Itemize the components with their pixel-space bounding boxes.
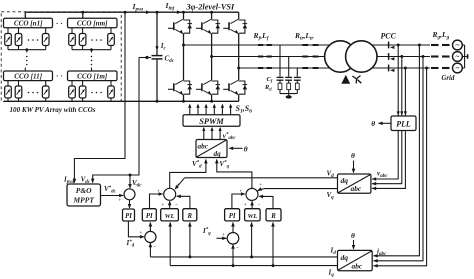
converter block CCO1 CCO [n1] [4, 18, 53, 28]
summing junction DC voltage [124, 189, 135, 200]
svg-text:R: R [187, 213, 193, 220]
summing junction q-axis [246, 188, 258, 200]
wire: CCO[n1] stub to bus [24, 12, 26, 18]
wire: bottom rail of top-row group 2 [72, 49, 111, 51]
PV module string 2-3 (bottom row) [108, 86, 115, 98]
wire: I_q feedback bus [170, 265, 337, 267]
wire: v_abc sense phase a [372, 45, 398, 179]
wire: I_d to R_d block [189, 223, 191, 257]
junction v_abc tap phase c [404, 67, 407, 70]
svg-text:abc: abc [198, 142, 209, 150]
junction V_dc branch [129, 174, 132, 177]
junction i_abc tap phase c [425, 67, 428, 70]
controller block R (q-axis) [266, 209, 281, 221]
wire: V_q feedforward [264, 188, 338, 190]
controller block PI (q-axis) [225, 209, 240, 221]
svg-text:SPWM: SPWM [199, 117, 224, 126]
svg-text:~: ~ [455, 52, 459, 61]
series impedance R_f,L_f dashes phase b [258, 56, 263, 58]
current arrow I_pva [146, 10, 151, 14]
svg-text:abc: abc [352, 261, 363, 270]
series impedance R_tr,L_tr dashes phase c [302, 67, 308, 69]
wire: theta output of PLL [379, 122, 392, 124]
wire: DC-link upper [156, 12, 158, 55]
svg-text:WL: WL [165, 213, 175, 220]
converter block CCO2 CCO [nm] [68, 18, 118, 28]
junction q error tap on I_q bus [232, 264, 235, 267]
PV module string 2-1 (top row) [69, 34, 76, 46]
svg-text:θ: θ [351, 231, 355, 240]
junction DC-link top [156, 11, 159, 14]
svg-text:−: − [258, 203, 261, 208]
wire: PI_q output to q summer [232, 194, 245, 209]
junction WL_q tap on I_d bus [250, 255, 253, 258]
IGBT Q3 (top leg 3) [230, 19, 238, 24]
ellipsis dots between PV modules [28, 92, 30, 94]
junction R_q tap on I_q bus [272, 264, 275, 267]
wire: DC-link lower [156, 59, 158, 101]
wire: I_d to WL_q block [251, 223, 253, 257]
wire: v_abc sense phase b [372, 57, 402, 184]
svg-text:R: R [270, 213, 276, 220]
controller block WL (q-axis) [245, 209, 261, 221]
wire: V*_q from q-axis summer to abc/dq [217, 160, 252, 189]
PV module string 1-3 (top row) [42, 34, 49, 46]
PV module string 2-3 (top row) [108, 34, 115, 46]
junction DC-link bottom [156, 100, 159, 103]
IGBT Q6 (bottom leg 3) [230, 80, 238, 85]
svg-text:+: + [162, 203, 165, 208]
PV module string 2-2 (top row) [79, 34, 86, 46]
junction leg 1 on DC- bus [182, 100, 185, 103]
grid source G2 [453, 52, 463, 62]
junction: I_pva tap [124, 11, 127, 14]
wire: theta into current transform [353, 240, 355, 249]
wire: WL_d output to d summer [169, 201, 171, 208]
svg-text:dq: dq [341, 176, 349, 185]
wire: I_q to q error summer [232, 245, 234, 266]
svg-text:MPPT: MPPT [72, 196, 94, 205]
svg-text:abc: abc [351, 184, 362, 193]
series impedance R_f,L_f dashes phase c [258, 67, 263, 69]
converter block CCO3 CCO [11] [4, 71, 53, 81]
SPWM block [183, 115, 240, 126]
inverter leg 2 wires [211, 12, 213, 19]
grid source G3 [453, 63, 463, 73]
junction i_abc tap phase b [422, 55, 425, 58]
wire: d error to PI_d [149, 223, 151, 232]
grid impedance dashes phase b [431, 55, 439, 57]
controller block PI (DC voltage) [123, 209, 135, 221]
P&O MPPT block [67, 184, 101, 206]
IGBT Q1 (top leg 1) [175, 19, 183, 24]
PV array dashed boundary [1, 12, 121, 102]
wire: I_q to R_q block [272, 223, 274, 266]
controller block WL (d-axis) [161, 209, 179, 221]
summing junction q-axis current error [227, 233, 239, 245]
PV module string 1-2 (top row) [15, 34, 22, 46]
shunt branch C_f/R_d phase a [279, 45, 281, 77]
grid source G1 [453, 40, 463, 50]
transformer T1 primary winding [325, 41, 356, 72]
wire: V_d feedforward [185, 177, 338, 179]
PV module string 1-1 (bottom row) [5, 86, 12, 98]
svg-text:PCC: PCC [381, 31, 397, 40]
transform block dq/abc (current) [338, 250, 373, 270]
arrows v*_abc into SPWM [203, 128, 205, 139]
svg-text:−: − [154, 245, 157, 250]
junction phase c midpoint [237, 67, 240, 70]
wire: R_d block output to d summer [177, 196, 190, 208]
svg-text:+: + [240, 190, 243, 195]
junction v_abc tap phase a [397, 44, 400, 47]
svg-text:~: ~ [455, 40, 459, 49]
wire: DC negative bus [4, 100, 239, 102]
wire: I_pva measurement to MPPT [74, 12, 125, 182]
junction + continuation dots group 1 [25, 48, 28, 51]
wire: bottom rail of top-row group 1 [8, 49, 46, 51]
svg-text:PI: PI [125, 213, 132, 220]
controller block R (d-axis) [183, 209, 197, 221]
PLL block U_PLL [391, 116, 416, 131]
wire: V_dc to summer [129, 175, 131, 188]
grid impedance dashes phase a [431, 44, 439, 46]
svg-text:dq: dq [214, 150, 222, 158]
inverter leg 3 wires [238, 12, 240, 19]
svg-text:+: + [119, 199, 122, 204]
junction + continuation dots group 2 [90, 48, 93, 51]
svg-text:θ: θ [371, 119, 375, 128]
wire: CCO[nm] stub to bus [82, 12, 84, 18]
shunt branch C_f/R_d phase c [296, 68, 298, 77]
capacitor C_dc [152, 55, 163, 57]
svg-text:CCO [nm]: CCO [nm] [77, 20, 108, 28]
inverter leg 1 wires [183, 12, 185, 19]
svg-text:CCO [11]: CCO [11] [14, 73, 42, 81]
wire: I*_q reference stub [217, 237, 227, 239]
grid neutral tick [465, 56, 469, 58]
wire: grid neutral bus [464, 45, 466, 68]
svg-text:100 KW PV Array with CCOs: 100 KW PV Array with CCOs [10, 106, 96, 114]
transform block abc/dq (modulation) [196, 140, 227, 158]
junction leg 1 on DC+ bus [182, 11, 185, 14]
wire: V*_d from d-axis summer to abc/dq [170, 160, 206, 188]
arrow into PLL [397, 111, 400, 115]
wire: PI_d output to d summer [150, 194, 163, 209]
shunt branch C_f/R_d phase b [288, 57, 290, 77]
wire: I_q to WL_d block [169, 223, 171, 266]
wire: DC positive bus [25, 11, 238, 13]
grid impedance dashes phase c [431, 67, 439, 69]
arrow into PLL [400, 111, 403, 115]
ellipsis dots between PV modules [91, 39, 93, 41]
wire: i_abc sense phase b [374, 57, 424, 261]
wire: WL_q output to q summer [251, 201, 253, 208]
wire: I*_d from PI to d error summer [128, 221, 144, 237]
svg-text:CCO [1m]: CCO [1m] [77, 73, 108, 81]
wire: phase b line [212, 56, 430, 58]
summing junction d-axis current error [145, 231, 156, 242]
wire: i_abc sense phase c [374, 68, 427, 266]
ellipsis dots between PV modules [91, 92, 93, 94]
svg-text:+: + [222, 233, 225, 238]
svg-text:· ·: · · [56, 72, 63, 81]
sensor tick phase b at PCC [388, 53, 390, 60]
wire: phase c line [239, 67, 430, 69]
svg-text:−: − [175, 203, 178, 208]
svg-text:P&O: P&O [76, 186, 92, 195]
svg-text:Grid: Grid [442, 75, 455, 82]
svg-text:−: − [236, 246, 239, 251]
svg-text:dq: dq [341, 253, 349, 262]
svg-text:· ·: · · [56, 19, 63, 28]
series impedance R_tr,L_tr dashes phase b [302, 56, 308, 58]
wire: i_abc sense phase a [374, 45, 420, 256]
wire: voltage error to PI [129, 200, 131, 208]
summing junction d-axis [164, 188, 176, 200]
IGBT Q4 (bottom leg 1) [175, 80, 183, 85]
svg-text:PI: PI [229, 213, 236, 220]
svg-text:+: + [244, 203, 247, 208]
wire: theta into abc/dq [230, 147, 243, 149]
svg-text:θ: θ [351, 151, 355, 160]
svg-text:PI: PI [146, 213, 153, 220]
wire: I_d feedback bus [150, 256, 337, 258]
sensor tick phase a at PCC [388, 42, 390, 49]
junction leg 2 on DC- bus [210, 100, 213, 103]
ground node of shunt filter [286, 95, 292, 98]
wire: theta into voltage transform [353, 161, 355, 173]
controller block PI (d-axis) [142, 209, 156, 221]
junction R_d tap on I_d bus [188, 255, 191, 258]
wire: phase a line [184, 44, 431, 46]
svg-text:~: ~ [455, 63, 459, 72]
wire: V_dc sense tap [139, 57, 151, 59]
svg-text:−: − [135, 184, 138, 189]
label wye symbol (secondary winding connection) [352, 76, 356, 79]
PV module string 2-2 (bottom row) [79, 86, 86, 98]
junction phase b midpoint [210, 55, 213, 58]
sensor tick phase c at PCC [388, 65, 390, 72]
transform block dq/abc (voltage) [338, 174, 371, 193]
junction on DC+ bus at CCO[nm] [81, 11, 84, 14]
svg-text:WL: WL [247, 213, 257, 220]
junction i_abc tap phase a [418, 44, 421, 47]
ellipsis dots between PV modules [28, 39, 30, 41]
svg-text:+: + [177, 183, 180, 188]
IGBT Q5 (bottom leg 2) [203, 80, 211, 85]
junction v_abc tap phase b [400, 55, 403, 58]
svg-text:θ: θ [244, 145, 248, 154]
current arrow I_inj [177, 10, 182, 14]
label delta (primary winding connection) [341, 75, 350, 84]
svg-text:CCO [n1]: CCO [n1] [14, 20, 43, 28]
converter block CCO4 CCO [1m] [68, 71, 118, 81]
PV module string 2-1 (bottom row) [69, 86, 76, 98]
current arrow I_c [155, 46, 158, 50]
wire: q error to PI_q [232, 223, 234, 233]
junction leg 2 on DC+ bus [210, 11, 213, 14]
wire: shunt branch common [280, 93, 297, 95]
arrow into PLL [404, 111, 407, 115]
PV module string 1-2 (bottom row) [15, 86, 22, 98]
series impedance R_tr,L_tr dashes phase a [302, 44, 308, 46]
svg-text:+: + [259, 183, 262, 188]
wire: v_abc sense phase c [372, 68, 405, 188]
IGBT Q2 (top leg 2) [203, 19, 211, 24]
wire: V_dc measurement [93, 58, 139, 183]
series impedance R_f,L_f dashes phase a [258, 44, 263, 46]
wire: V*_dc from MPPT to summer [101, 195, 124, 197]
PV module string 1-1 (top row) [5, 34, 12, 46]
PV module string 1-3 (bottom row) [42, 86, 49, 98]
wire: R_q block output to q summer [259, 196, 273, 208]
transformer T1 secondary winding [346, 41, 377, 72]
svg-text:PLL: PLL [396, 120, 411, 129]
svg-text:3φ-2level-VSI: 3φ-2level-VSI [186, 2, 235, 11]
svg-text:+: + [157, 190, 160, 195]
gate pulse arrows S1..S6 from SPWM [189, 105, 191, 115]
junction phase a midpoint [182, 44, 185, 47]
